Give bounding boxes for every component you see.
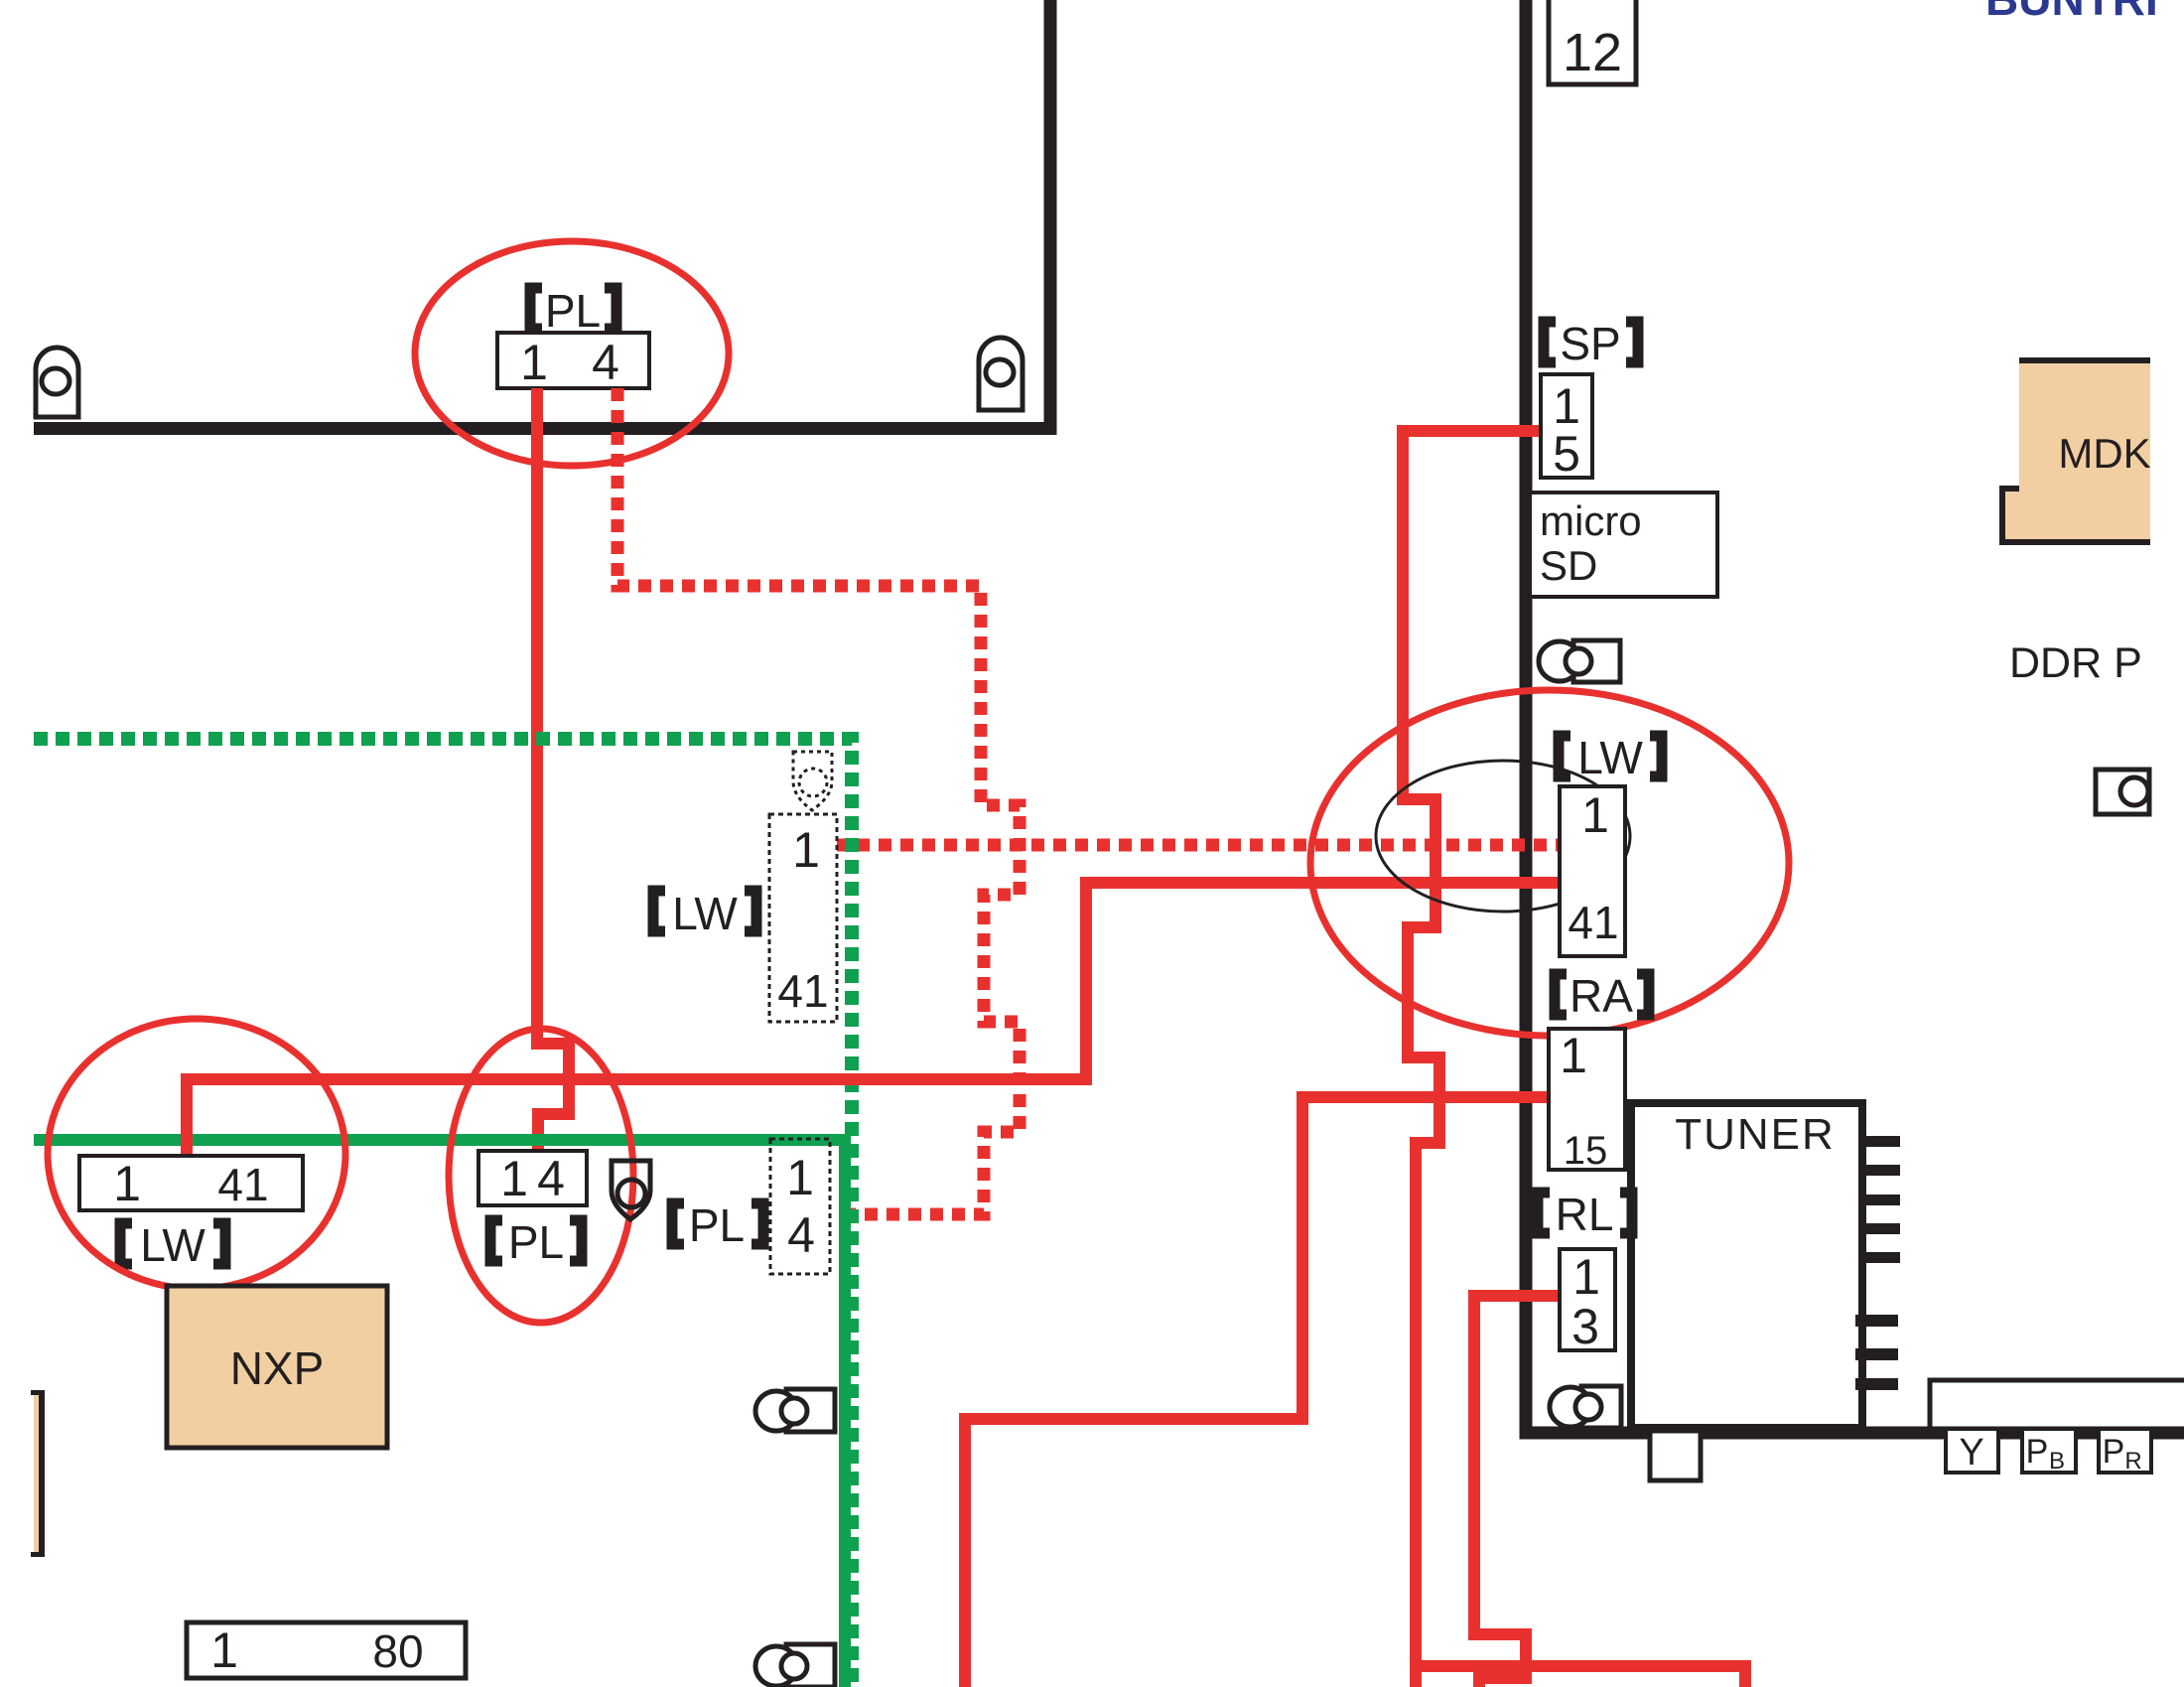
oval fiducial icon (below RL) (1550, 1386, 1621, 1428)
label RA (1555, 970, 1649, 1022)
board outline A (top-left PCB edge) (34, 0, 1050, 429)
svg-text:TUNER: TUNER (1675, 1110, 1836, 1159)
IC MDK box (right edge) (2002, 360, 2151, 542)
svg-text:41: 41 (777, 965, 828, 1017)
board outline B (main PCB edge, vertical + bottom) (1526, 0, 2184, 1433)
oval fiducial icon (left of green line, bottom) (755, 1644, 835, 1687)
IC NXP box (167, 1286, 387, 1448)
connector PL (top) pin box 1-4 (497, 333, 649, 390)
svg-text:4: 4 (537, 1151, 565, 1206)
svg-text:BUNTRI: BUNTRI (1985, 0, 2158, 25)
connector LW (right) pin box 1-41 (1560, 786, 1625, 956)
svg-text:1: 1 (1581, 787, 1609, 843)
highlight ellipse around PL (top) (415, 241, 729, 466)
svg-text:LW: LW (672, 888, 738, 939)
svg-text:1: 1 (113, 1156, 141, 1211)
svg-text:41: 41 (1568, 897, 1618, 948)
wire red bottom branch to edge (1415, 1666, 1745, 1687)
svg-text:SP: SP (1560, 318, 1620, 369)
svg-text:15: 15 (1564, 1129, 1608, 1173)
connector Y (1946, 1429, 1998, 1474)
connector SP pin box 1-5 (1541, 374, 1592, 482)
wire red from RA connector to bottom edge (965, 1097, 1549, 1687)
svg-text:41: 41 (217, 1159, 268, 1210)
svg-text:MDK: MDK (2058, 430, 2150, 477)
svg-text:12: 12 (1563, 23, 1622, 82)
svg-text:1: 1 (792, 822, 820, 878)
highlight ellipse around bottom PL (449, 1029, 633, 1323)
wire red dotted horizontal to right LW pin1 (835, 839, 1559, 852)
wire red from RL connector to bottom edge (1474, 1296, 1561, 1687)
connector PL (dotted) pin box 1-4 (770, 1139, 830, 1274)
oval fiducial icon (left of green line, upper) (755, 1389, 835, 1432)
svg-text:P: P (2026, 1433, 2049, 1471)
screw hole icon (top-right of left board) (979, 338, 1023, 410)
svg-text:1: 1 (520, 335, 548, 390)
svg-text:RA: RA (1570, 970, 1633, 1022)
Y PB PR outer connector box (1930, 1380, 2184, 1433)
wire green dotted (horizontal then down) (34, 739, 852, 1687)
svg-text:1: 1 (786, 1150, 814, 1205)
oval fiducial icon (below micro SD) (1539, 640, 1620, 682)
connector RA pin box 1-15 (1549, 1028, 1625, 1173)
shield icon (right of bottom PL box) (612, 1161, 650, 1219)
svg-text:PL: PL (508, 1216, 564, 1268)
svg-text:4: 4 (592, 335, 619, 390)
svg-text:Y: Y (1959, 1432, 1983, 1474)
connector 1-80 box (bottom left) (187, 1622, 466, 1678)
IC strip (left edge, tan with black border) (31, 1390, 45, 1557)
svg-text:LW: LW (1577, 732, 1643, 783)
connector PL (bottom) pin box 1-4 (478, 1151, 587, 1206)
svg-text:1: 1 (1560, 1028, 1587, 1083)
svg-text:4: 4 (787, 1207, 815, 1263)
svg-text:PL: PL (689, 1199, 745, 1251)
wire red PL pin1 down to lower PL connector (537, 388, 569, 1158)
label PL (bottom) (490, 1216, 582, 1268)
screw hole icon (top-left board) (36, 348, 78, 417)
wire red from left LW box to right LW connector (187, 883, 1559, 1170)
micro SD box (1530, 492, 1717, 597)
svg-text:RL: RL (1556, 1189, 1614, 1240)
label SP (1544, 318, 1638, 369)
wire red dotted PL pin4 routing (617, 388, 1020, 1214)
fiducial box with circle (right edge) (2096, 770, 2149, 814)
svg-text:P: P (2103, 1433, 2125, 1471)
svg-text:LW: LW (140, 1219, 205, 1271)
svg-text:SD: SD (1540, 542, 1597, 589)
connector 12 box (top, on main board edge) (1549, 0, 1636, 84)
connector LW (middle, dotted) shield icon (793, 752, 832, 810)
label PL (top) (530, 285, 616, 337)
small mount square below board edge (1650, 1431, 1701, 1480)
connector PB (2022, 1429, 2076, 1475)
label LW (right) (1559, 732, 1662, 783)
svg-text:micro: micro (1540, 497, 1642, 544)
label PL (dotted connector) (672, 1199, 763, 1251)
svg-text:PL: PL (545, 285, 601, 337)
label LW (left) (120, 1219, 225, 1271)
connector PR (2099, 1429, 2151, 1475)
svg-text:1: 1 (500, 1151, 528, 1206)
TUNER pins (right side) (1855, 1136, 1900, 1390)
svg-text:DDR P: DDR P (2009, 639, 2142, 687)
svg-text:1: 1 (210, 1622, 238, 1678)
svg-text:1: 1 (1572, 1249, 1600, 1305)
TUNER box (1631, 1103, 1862, 1428)
svg-text:80: 80 (372, 1625, 423, 1677)
label RL (1538, 1189, 1632, 1240)
connector LW (middle, dotted) pin box 1-41 (769, 814, 837, 1022)
label LW (middle) (653, 888, 756, 939)
highlight ellipse around left LW (48, 1019, 345, 1289)
svg-text:R: R (2124, 1448, 2141, 1475)
black ellipse (around LW pin1 area) (1376, 761, 1630, 912)
connector LW (left) pin box 1-41 (79, 1156, 303, 1211)
wire red from SP connector down across page (1403, 431, 1541, 1687)
svg-text:NXP: NXP (230, 1342, 325, 1394)
wire green solid (horizontal then down) (34, 1140, 845, 1687)
svg-text:B: B (2049, 1448, 2065, 1475)
svg-text:5: 5 (1553, 426, 1580, 482)
highlight ellipse (large, around right LW/RA) (1310, 690, 1789, 1036)
svg-text:3: 3 (1571, 1299, 1599, 1354)
connector RL pin box 1-3 (1560, 1249, 1615, 1354)
